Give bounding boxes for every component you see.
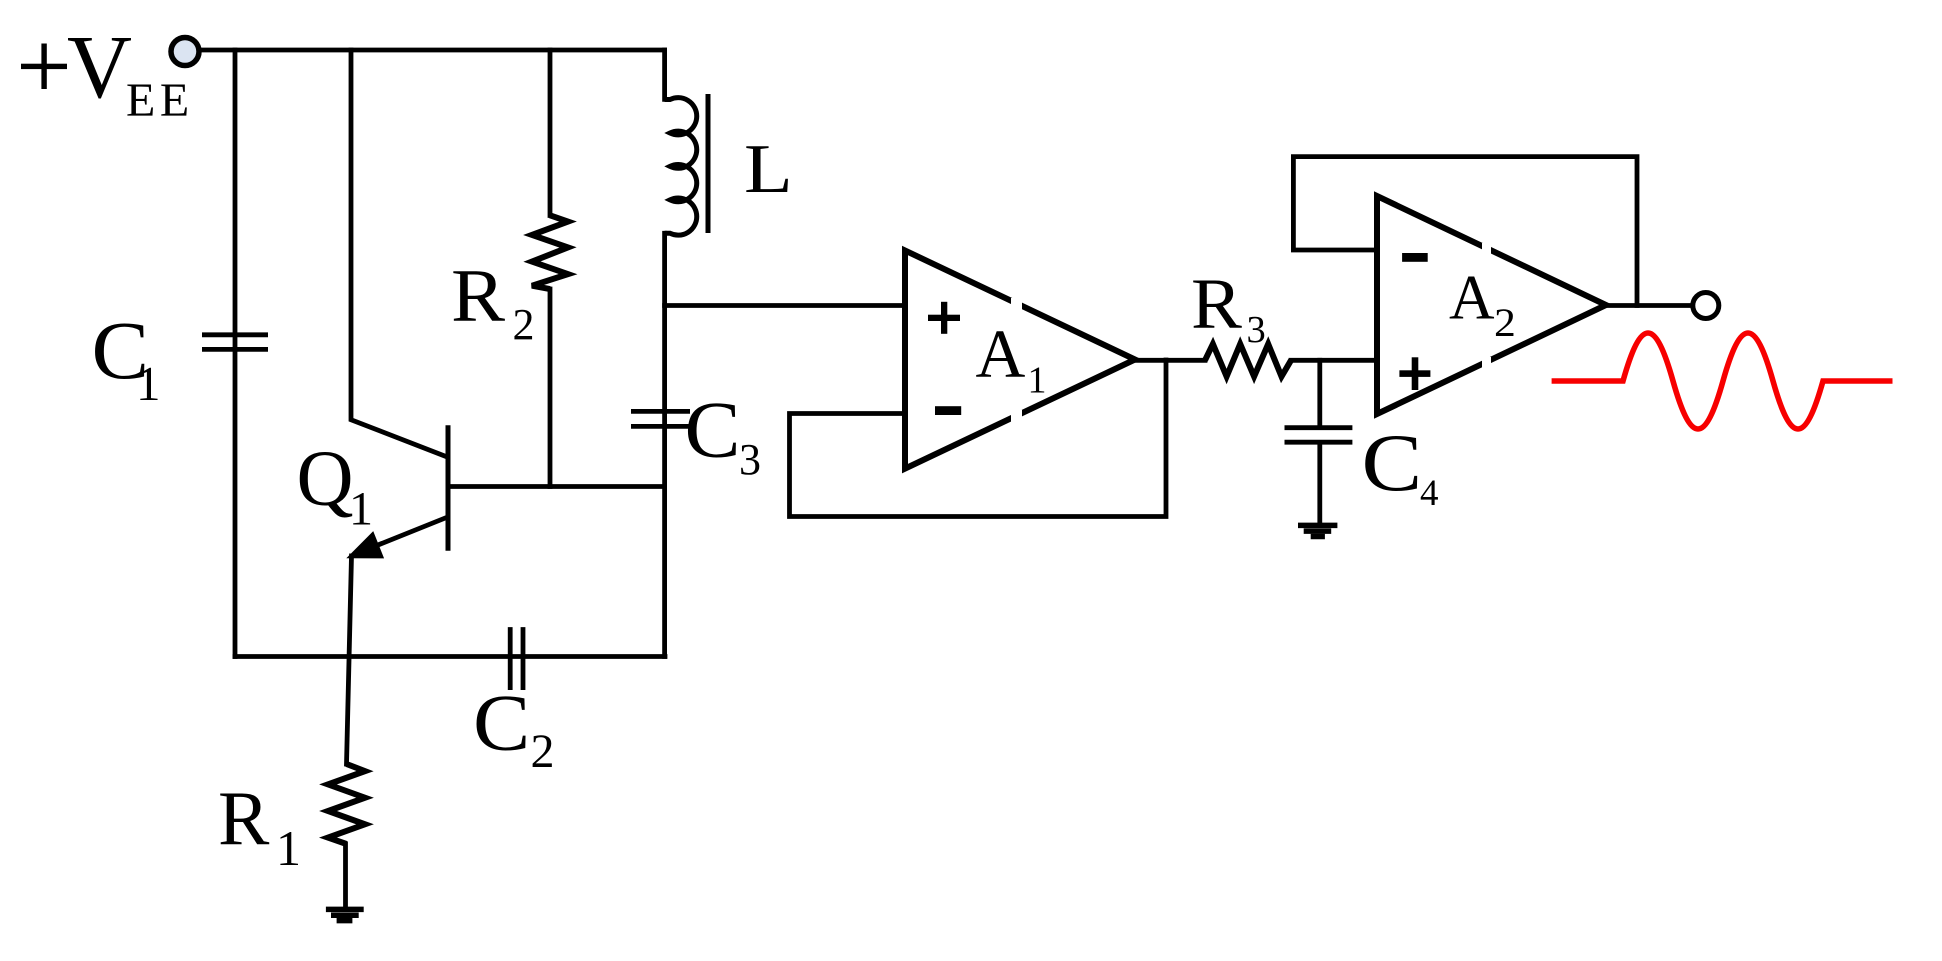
svg-text:3: 3 xyxy=(1247,309,1266,351)
svg-text:Q: Q xyxy=(297,436,354,523)
svg-text:R: R xyxy=(218,775,270,861)
svg-text:2: 2 xyxy=(531,725,555,778)
svg-text:1: 1 xyxy=(1028,360,1047,402)
svg-text:2: 2 xyxy=(1494,300,1516,345)
svg-text:A: A xyxy=(976,316,1026,392)
svg-text:1: 1 xyxy=(276,820,301,876)
svg-text:R: R xyxy=(1191,264,1242,344)
svg-text:C: C xyxy=(1362,417,1423,508)
svg-text:3: 3 xyxy=(739,435,761,484)
svg-text:1: 1 xyxy=(349,483,373,536)
svg-text:EE: EE xyxy=(126,74,194,127)
svg-text:C: C xyxy=(473,679,530,768)
svg-text:L: L xyxy=(744,130,793,207)
svg-text:C: C xyxy=(685,385,741,474)
svg-text:1: 1 xyxy=(136,356,161,411)
svg-text:2: 2 xyxy=(513,300,535,349)
svg-text:R: R xyxy=(451,253,505,337)
svg-text:4: 4 xyxy=(1420,473,1439,514)
svg-text:A: A xyxy=(1449,263,1495,333)
svg-text:V: V xyxy=(67,18,132,117)
